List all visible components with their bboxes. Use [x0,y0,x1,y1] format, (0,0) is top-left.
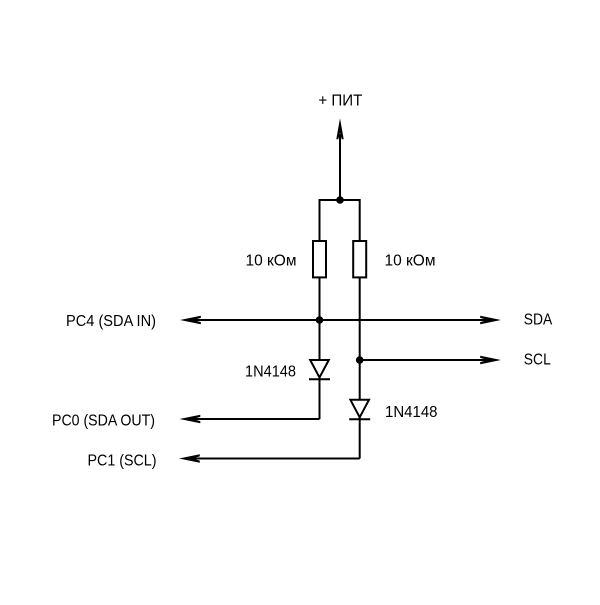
arrowhead left: SDA line [180,316,201,325]
arrow to +PWR (up) [336,118,343,139]
wire: right branch, resistor bottom down through SDA crossing and diode VD2 to PC1 line [359,277,361,458]
diode VD2 1N4148 (right) [349,400,370,419]
svg-text:PC1 (SCL): PC1 (SCL) [88,453,157,470]
wire: vertical stub from +PWR arrow down to top rail [339,134,341,200]
junction node on SDA line (left branch) [316,316,324,324]
wire: PC1 (SCL) horizontal line [190,458,360,460]
junction node at top rail [336,196,344,204]
svg-text:10 кОм: 10 кОм [385,253,436,270]
wire: SCL horizontal line [360,359,489,361]
diode VD1 1N4148 (left) [309,360,330,379]
wire: top rail between resistor branches [320,200,360,241]
resistor R1 10 kOhm (left) [313,241,326,277]
svg-text:1N4148: 1N4148 [245,364,296,381]
wire: left branch, resistor bottom to SDA line [319,277,321,320]
svg-text:SDA: SDA [524,312,553,329]
resistor R2 10 kOhm (right) [353,241,366,277]
arrowhead left: PC1 line [179,454,200,463]
svg-text:PC0 (SDA OUT): PC0 (SDA OUT) [52,413,155,430]
arrowhead left: PC0 line [180,415,201,424]
svg-text:1N4148: 1N4148 [385,404,438,421]
wire: PC0 (SDA OUT) horizontal line [191,418,320,420]
wire: left branch, SDA line down through diode VD1 to PC0 line [319,320,321,419]
svg-text:SCL: SCL [524,352,551,369]
arrowhead right: SCL line [480,356,501,365]
wire: SDA horizontal line [191,319,489,321]
svg-text:+ ПИТ: + ПИТ [318,93,362,110]
arrowhead right: SDA line [480,316,501,325]
junction node on SCL line (right branch) [356,356,364,364]
svg-text:PC4 (SDA IN): PC4 (SDA IN) [66,313,156,330]
svg-text:10 кОм: 10 кОм [246,253,297,270]
